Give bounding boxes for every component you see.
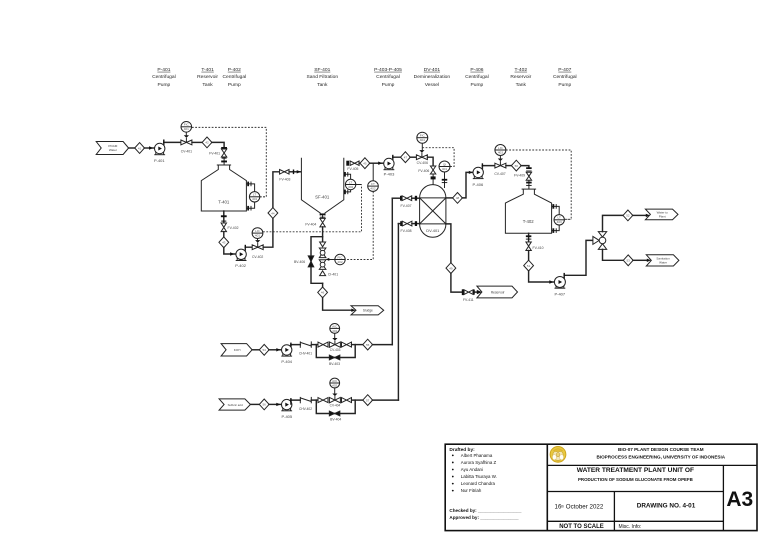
svg-text:P-406: P-406 [473,182,484,187]
wire diamond to FV-409 [514,166,532,178]
wire diamond to flag [633,214,650,217]
svg-text:P-404: P-404 [281,359,292,364]
svg-text:Water: Water [659,260,667,264]
wire diamond to pump P-403 [370,162,384,165]
title block frame [445,444,757,530]
node stream diamond 13 [623,255,633,266]
signal FIC-401 to LT-401 [192,127,266,196]
node stream diamond 1 [135,143,145,154]
valve FV-402 [221,223,238,232]
svg-text:P-402: P-402 [228,67,241,73]
sample valve stack CI-401 [319,242,338,276]
svg-text:Pump: Pump [158,82,171,88]
svg-text:402: 402 [337,260,342,264]
svg-text:QI: QI [443,162,446,166]
svg-text:P-405: P-405 [281,414,292,419]
off-page connector KOH [221,344,252,356]
tank T-401 [201,165,246,211]
check valve CHV-401 [290,341,312,355]
node stream diamond 17 [363,395,373,406]
equipment label T-401 [197,67,218,88]
svg-text:P-403-P-405: P-403-P-405 [374,67,402,73]
svg-text:41: 41 [138,146,142,150]
svg-text:FIC: FIC [338,255,344,259]
pump P-404 [281,345,293,365]
svg-text:Demineralization: Demineralization [414,74,451,80]
svg-text:AIC: AIC [332,379,338,383]
node stream diamond 7 [401,152,411,163]
svg-text:P-401: P-401 [157,67,170,73]
wire P-406 discharge [482,163,495,168]
svg-text:Pump: Pump [382,82,395,88]
wire CV-406 to FV-406 [427,157,433,165]
instrument FIC-404 [417,132,428,151]
svg-text:LT: LT [253,193,256,197]
svg-text:T-402: T-402 [523,219,535,224]
wire stack to diamond [322,283,324,287]
svg-text:WATER TREATMENT PLANT UNIT OF: WATER TREATMENT PLANT UNIT OF [577,467,694,474]
signal FT-402 to FIC-402 [345,191,373,259]
svg-text:FIC: FIC [184,123,190,127]
pump P-407 [554,277,566,297]
svg-text:CV-401: CV-401 [181,150,192,154]
svg-text:CHV-402: CHV-402 [299,407,312,411]
control valve CV-401 [181,135,192,153]
instrument FIC-401 [181,122,192,137]
svg-text:FV-405: FV-405 [347,167,358,171]
wire diamond up to P-406 [462,171,473,198]
svg-text:Centrifugal: Centrifugal [465,74,489,80]
svg-text:CHV-401: CHV-401 [299,351,312,355]
signal LIC-401 to LT-402 [263,185,362,232]
title block text [555,447,754,530]
wire acid to diamond [250,403,259,405]
node stream diamond 14 [259,344,269,355]
svg-text:402: 402 [370,187,375,191]
wire to station [311,344,318,346]
level transmitter LT-403 [552,204,572,233]
equipment label P-407 [553,67,577,88]
svg-text:NOT TO SCALE: NOT TO SCALE [559,524,604,530]
valve FV-403 [279,170,290,182]
svg-text:Tank: Tank [317,82,328,88]
block valve right [342,342,352,347]
wire diamond to pump P-407 [529,271,555,284]
svg-text:FV-407: FV-407 [401,204,412,208]
pump P-405 [281,399,293,419]
svg-text:FV-402: FV-402 [228,226,239,230]
level transmitter LT-401 [246,182,260,211]
wire DV-401 bottom outlet [446,224,451,263]
wire T-401 bottom outlet [221,211,227,223]
svg-text:Checked by: _________________: Checked by: _________________ [449,508,521,513]
node stream diamond 2 [202,137,212,148]
svg-text:44: 44 [271,211,275,215]
block valve left [318,342,328,347]
wire station to diamond [352,344,364,346]
control valve CV-406 [416,150,428,165]
svg-text:401: 401 [442,167,447,171]
wire P-402 discharge [245,245,253,250]
svg-text:Leonard Chandra: Leonard Chandra [461,481,496,486]
svg-text:BIOPROCESS ENGINEERING, UNIVER: BIOPROCESS ENGINEERING, UNIVERSITY OF IN… [597,454,726,459]
svg-text:CV-406: CV-406 [417,161,428,165]
equipment label DV-401 [414,67,451,88]
svg-text:FV-401: FV-401 [209,152,220,156]
svg-text:BIO-07 PLANT DESIGN COURSE TEA: BIO-07 PLANT DESIGN COURSE TEAM [618,447,704,452]
wire PDAM to diamond [129,147,135,149]
svg-text:47: 47 [404,156,408,160]
off-page connector PDAM Water [96,142,128,155]
svg-text:Pump: Pump [228,82,241,88]
control valve CV-403 [329,338,340,352]
wire FV-410 to diamond [528,251,530,261]
svg-text:FV-411: FV-411 [463,298,474,302]
svg-text:P-403: P-403 [384,172,395,177]
off-page connector Water to Plant [645,209,678,220]
node stream diamond 5 [360,158,370,169]
svg-text:Pump: Pump [471,82,484,88]
svg-text:FV-409: FV-409 [514,173,525,177]
wire station to diamond [352,399,364,401]
svg-text:Approved by: _______________: Approved by: _______________ [449,515,519,520]
node stream diamond 11 [524,260,534,271]
wire KOH to diamond [252,349,259,351]
svg-text:FIC: FIC [420,134,426,138]
svg-text:57: 57 [366,398,370,402]
svg-text:P-401: P-401 [154,158,165,163]
svg-text:Pump: Pump [558,82,571,88]
check valve CHV-402 [290,397,312,411]
svg-text:Plant: Plant [659,214,666,218]
flange below FV-406 [431,174,436,185]
three-way valve [593,232,607,250]
bypass wire with valve BV-404 [316,400,355,422]
signal FIC-404 to QI-401 [422,148,454,167]
valve FV-411 with check [462,289,482,302]
pump P-403 [384,158,396,176]
svg-text:LIC: LIC [255,229,261,233]
valve FV-406 [418,166,435,174]
valve FV-410 [526,242,544,251]
wire CV-401 to diamond [192,141,202,143]
wire acid riser [397,224,399,401]
svg-text:SF-401: SF-401 [315,195,330,200]
wire P-401 discharge [163,140,181,145]
university logo [550,447,566,463]
node stream diamond 10 [511,160,521,171]
wire diamond to Sludge [323,298,356,312]
svg-text:P-406: P-406 [470,67,483,73]
svg-text:FT: FT [371,182,375,186]
instrument AIC-401 [330,324,340,339]
svg-text:T-401: T-401 [201,67,214,73]
svg-text:BV-406: BV-406 [294,260,305,264]
valve FV-409 [526,172,531,180]
svg-text:45: 45 [363,162,367,166]
valve FV-407 [392,196,419,208]
wire diamond to FV-401 [212,142,224,146]
wire FV-404 down to valve stack [322,227,324,242]
svg-text:Sludge: Sludge [363,309,373,313]
svg-text:CV-407: CV-407 [494,172,505,176]
node stream diamond 3 [219,237,229,248]
block valve right [342,398,352,403]
node stream diamond 9 [446,263,456,274]
svg-text:404: 404 [420,138,425,142]
bypass wire with valve BV-406 [294,237,323,284]
node stream diamond 12 [623,210,633,221]
wire FV-403 into SF-401 [289,170,301,175]
block valve left [318,398,328,403]
svg-text:Albert Phanama: Albert Phanama [461,453,493,458]
svg-text:DRAWING NO. 4-01: DRAWING NO. 4-01 [637,503,696,510]
wire diamond to CV-406 [410,156,416,158]
node stream diamond 6 [318,287,328,298]
svg-text:401: 401 [332,329,337,333]
svg-text:54: 54 [263,348,267,352]
svg-text:55: 55 [366,343,370,347]
wire DV-401 to diamond right [446,197,453,199]
svg-text:FV-403: FV-403 [279,178,290,182]
instrument QI-401 [439,161,450,188]
flange below FV-409 [526,180,532,189]
wire P-404 discharge [291,345,300,346]
wire 3-way valve to Sanitation Water [603,249,624,260]
flange above FV-401 [221,147,227,149]
svg-text:401: 401 [184,127,189,131]
wire SF-401 bottom outlet [320,213,326,218]
svg-text:50: 50 [515,164,519,168]
wire diamond to flag [633,259,651,262]
wire CV-407 to diamond [506,165,512,167]
wire to station [311,399,318,401]
control valve CV-407 [494,159,506,177]
svg-text:401: 401 [252,197,257,201]
svg-text:PRODUCTION OF SODIUM GLUCONATE: PRODUCTION OF SODIUM GLUCONATE FROM OPEF… [578,477,693,482]
wire diamond to pump P-401 [144,146,154,149]
svg-text:Sulfuric acid: Sulfuric acid [228,403,244,407]
pump P-402 [235,249,246,268]
svg-text:51: 51 [527,264,531,268]
svg-text:53: 53 [627,259,631,263]
off-page connector Reservoir [477,286,518,298]
demineralization vessel DV-401 [420,185,446,238]
svg-text:KOH: KOH [234,348,241,352]
sand filter SF-401 [301,158,343,216]
svg-text:T-401: T-401 [218,200,230,205]
equipment label SF-401 [307,67,339,88]
wire FV-405 to P-403 [359,162,360,164]
svg-text:CV-402: CV-402 [252,255,263,259]
svg-text:FV-404: FV-404 [305,222,316,226]
svg-text:Aurora Syafhina Z: Aurora Syafhina Z [461,460,497,465]
node stream diamond 15 [363,339,373,350]
node stream diamond 16 [259,399,269,410]
svg-text:SF-401: SF-401 [314,67,330,73]
wire diamond to pump P-404 [269,348,282,351]
svg-text:Centrifugal: Centrifugal [152,74,176,80]
svg-text:43: 43 [222,241,226,245]
level transmitter LT-402 [344,172,362,194]
wire diamond to FV-411 [451,273,462,292]
svg-text:Sand Filtration: Sand Filtration [307,74,339,80]
instrument AIC-402 [330,378,340,394]
svg-text:Tank: Tank [516,82,527,88]
equipment label P-406 [465,67,489,88]
svg-text:Misc. Info:: Misc. Info: [619,524,642,530]
valve FV-404 [305,218,325,227]
flange below FV-401 [221,157,227,165]
svg-text:Ayu Andani: Ayu Andani [461,467,483,472]
svg-text:Tank: Tank [202,82,213,88]
wire KOH riser [391,198,393,344]
instrument FIC-402 [326,254,346,264]
svg-text:403: 403 [557,220,562,224]
bypass wire with valve BV-403 [316,345,355,366]
svg-text:46: 46 [321,291,325,295]
tank T-402 [505,189,551,233]
wire FV-402 to diamond [223,232,225,237]
valve FV-405 [346,161,359,172]
wire P-403 discharge [392,155,401,160]
svg-text:BV-404: BV-404 [330,418,341,422]
off-page connector Sanitation Water [646,255,679,266]
svg-text:CV-404: CV-404 [330,403,341,407]
svg-text:CI-401: CI-401 [328,272,338,276]
svg-text:402: 402 [348,185,353,189]
svg-text:BV-403: BV-403 [329,362,340,366]
svg-text:DV-401: DV-401 [424,67,441,73]
svg-text:402: 402 [332,383,337,387]
control valve CV-404 [329,394,340,408]
svg-text:401: 401 [255,234,260,238]
svg-text:Centrifugal: Centrifugal [376,74,400,80]
svg-text:Centrifugal: Centrifugal [222,74,246,80]
svg-text:T-402: T-402 [515,67,528,73]
valve FV-401 [209,149,227,157]
signal LT-401 dashes [260,196,266,198]
svg-text:FV-406: FV-406 [418,169,429,173]
off-page connector Sludge [351,306,384,315]
wire diamond to pump P-405 [269,403,282,406]
svg-text:56: 56 [263,403,267,407]
svg-text:AIC: AIC [332,324,338,328]
node stream diamond 8 [453,193,463,204]
wire diamond to riser [372,344,392,346]
wire diamond to riser [372,399,398,401]
svg-text:P-407: P-407 [554,292,565,297]
svg-text:403: 403 [498,150,503,154]
wire diamond to pump P-402 [224,248,236,256]
pump P-406 [473,167,484,187]
svg-text:A3: A3 [726,488,753,511]
valve FV-408 [398,221,419,233]
svg-text:52: 52 [626,214,630,218]
svg-text:P-402: P-402 [235,263,246,268]
equipment label P-403-P-405 [374,67,402,88]
wire T-402 bottom outlet [526,233,532,242]
svg-text:48: 48 [456,196,460,200]
node stream diamond 4 [268,208,278,219]
wire P-407 discharge to 3-way valve [564,240,594,278]
signal LIC-403 to LT-403 [506,150,571,219]
instrument LIC-401 [252,228,263,242]
wire CV-402 up to FV-403 [263,172,278,247]
instrument FT-402 tap [368,163,379,191]
svg-text:Nur Fitriah: Nur Fitriah [461,488,482,493]
svg-text:Centrifugal: Centrifugal [553,74,577,80]
instrument LIC-403 [495,145,506,160]
svg-text:Labitta Tsuraya W.: Labitta Tsuraya W. [461,474,497,479]
svg-text:Reservoir: Reservoir [510,74,531,80]
wire P-405 discharge [291,400,300,404]
svg-text:DV-401: DV-401 [426,228,439,233]
pump P-401 [154,143,165,163]
drafted by text [449,447,521,520]
svg-text:Reservoir: Reservoir [491,290,506,294]
svg-text:42: 42 [205,141,209,145]
svg-text:Vessel: Vessel [425,82,439,88]
off-page connector Sulfuric Acid [219,399,250,410]
equipment label P-402 [222,67,246,88]
svg-text:FV-408: FV-408 [401,229,412,233]
equipment label P-401 [152,67,176,88]
equipment label T-402 [510,67,531,88]
svg-text:LT: LT [349,180,352,184]
svg-text:LIC: LIC [498,146,504,150]
svg-text:CV-403: CV-403 [330,348,341,352]
svg-text:Reservoir: Reservoir [197,74,218,80]
control valve CV-402 [252,240,263,259]
svg-text:FV-410: FV-410 [533,246,544,250]
wire 3-way valve to Water to Plant [603,215,624,231]
svg-text:LT: LT [558,216,561,220]
svg-text:49: 49 [449,266,453,270]
svg-text:Water: Water [109,148,117,152]
svg-text:P-407: P-407 [558,67,571,73]
